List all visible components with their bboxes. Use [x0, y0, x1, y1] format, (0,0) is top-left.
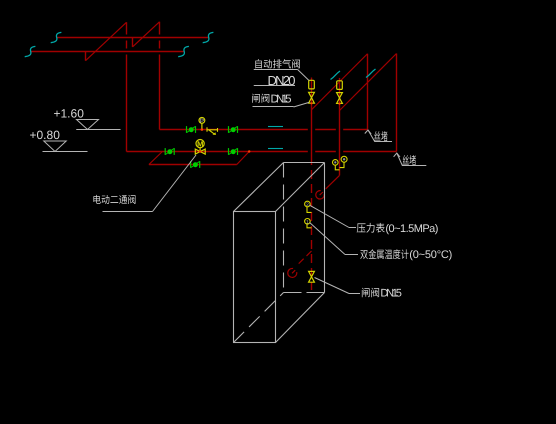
break symbol lower main right: [178, 46, 189, 56]
wire lower supply main: [31, 51, 184, 53]
tank top right depth edge: [276, 163, 325, 212]
insulation tick lower row: [268, 148, 283, 150]
riser A connection stub: [85, 52, 87, 61]
dashed branch outlet hook: [288, 268, 297, 277]
insulation tick upper row: [268, 126, 283, 128]
pressure gauge on dashed riser: [305, 201, 312, 212]
valve V2 upper row: [229, 126, 238, 133]
label plug 1: [365, 130, 392, 142]
label gate valve DN15 bottom: [315, 278, 402, 300]
svg-text:+0.80: +0.80: [30, 128, 61, 142]
riser B connection stub: [132, 38, 134, 47]
motor valve M electric two-way valve: [195, 140, 205, 155]
valve V4 lower row: [229, 148, 238, 155]
valve V5 bypass: [191, 161, 200, 168]
valve V1 upper row: [187, 126, 196, 133]
label pressure gauge: [310, 205, 439, 235]
tank inlet diagonal pipe: [326, 175, 340, 188]
tank hidden back bottom edge: [284, 292, 325, 294]
junction dot riser C bowtie: [310, 102, 312, 104]
tank bottom right depth edge: [276, 293, 325, 343]
label electric two-way valve: [93, 155, 196, 212]
tank back top edge: [284, 162, 325, 164]
check valve upper row: [207, 127, 218, 135]
wire upper supply main: [57, 37, 208, 39]
break slash on diagonal C: [331, 71, 341, 80]
expansion diagonal D: [340, 54, 397, 111]
svg-text:DN15: DN15: [380, 287, 402, 299]
label automatic exhaust valve: [254, 59, 309, 88]
svg-text:DN15: DN15: [271, 94, 292, 106]
junction bypass right: [248, 150, 250, 152]
label bimetal thermometer: [310, 223, 453, 262]
riser A vertical pipe (broken at mains): [126, 22, 128, 151]
label plug 2: [394, 153, 427, 166]
wire lower valve row pipe (gaps at risers C and D): [127, 151, 397, 153]
wire upper valve row pipe (gaps at risers C and D): [160, 129, 368, 131]
tank back right vertical edge: [324, 163, 326, 293]
riser A connection diagonal: [86, 22, 127, 60]
valve V3 lower row: [165, 148, 174, 155]
elevation marker +1.60: [54, 107, 121, 130]
gate valve on riser D: [337, 93, 343, 104]
break slash on diagonal D: [366, 69, 376, 78]
riser B connection diagonal: [133, 22, 160, 47]
expansion diagonal C: [312, 54, 368, 110]
wire bypass bottom line: [149, 164, 237, 166]
tank front face: [234, 212, 276, 343]
wire bypass left diagonal: [149, 152, 163, 165]
automatic exhaust valve on riser C: [309, 80, 315, 89]
tank top left depth edge: [234, 163, 284, 212]
break symbol upper main right: [203, 32, 214, 42]
break symbol lower main left: [25, 46, 36, 56]
riser B vertical pipe (broken at mains): [159, 22, 161, 130]
label gate valve DN15 top: [252, 94, 309, 107]
tank hidden back left vertical edge: [283, 163, 285, 293]
svg-text:P: P: [200, 118, 204, 125]
elevation marker +0.80: [30, 128, 88, 152]
thermometer on dashed riser: [305, 219, 312, 228]
dashed branch diagonal in tank: [298, 251, 312, 265]
svg-text:(0~50°C): (0~50°C): [409, 249, 452, 261]
expansion riser C end vertical: [367, 54, 369, 130]
junction dot riser D bowtie: [338, 103, 340, 105]
riser C dashed pipe inside tank: [311, 156, 313, 290]
automatic exhaust valve on riser D: [337, 81, 343, 90]
tank inlet outlet hook: [316, 191, 324, 199]
riser D vertical pipe: [339, 78, 341, 175]
break symbol upper main left: [51, 32, 62, 42]
pressure gauge P upper row: [199, 118, 205, 131]
expansion riser D end vertical: [396, 54, 398, 152]
wire bypass right diagonal: [237, 152, 249, 165]
svg-text:(0~1.5MPa): (0~1.5MPa): [385, 223, 438, 235]
svg-text:+1.60: +1.60: [54, 107, 85, 121]
gate valve on riser C: [309, 92, 315, 103]
riser C vertical pipe: [311, 78, 313, 157]
tank hidden bottom left depth edge: [234, 293, 284, 343]
svg-text:M: M: [197, 140, 203, 149]
gauge pair at tank inlet: [333, 156, 348, 170]
gate valve DN15 on dashed riser: [309, 271, 315, 282]
